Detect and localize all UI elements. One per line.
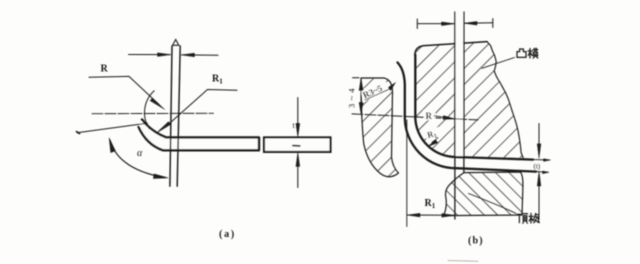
punch block top edge fig b	[415, 42, 487, 55]
punch block right wavy edge fig b	[487, 42, 523, 158]
white strip of punch stem fig b	[456, 12, 464, 156]
scan smudge under (b)	[448, 260, 478, 263]
svg-text:t: t	[293, 121, 296, 130]
top dimension right arrow fig a	[182, 54, 218, 56]
ejector pad hatched fig b	[444, 172, 523, 216]
die corner label R3~5 fig b	[360, 80, 389, 101]
thickness dim lower arrow fig a	[297, 167, 299, 188]
label tu-mo (punch) fig b	[517, 48, 538, 58]
flange end tick	[77, 132, 80, 134]
bottom dimension R1 fig b	[406, 120, 408, 227]
delta mark above punch	[173, 40, 179, 46]
sheet inner surface vertical + bend fig b	[415, 55, 533, 160]
top dimension fig b	[417, 19, 454, 29]
small mark inside detached section	[293, 145, 300, 147]
left small dimension 3~4 fig b	[360, 80, 362, 113]
svg-text:R: R	[426, 111, 433, 121]
svg-text:α: α	[137, 148, 143, 159]
punch block hatched region fig b	[416, 42, 524, 158]
alpha arc lower arrowhead	[153, 174, 168, 179]
svg-text:R1: R1	[425, 198, 436, 210]
sheet outer surface vertical + bend fig b	[398, 63, 537, 172]
punch bar fig a	[170, 46, 180, 186]
centerline fig a	[92, 112, 214, 114]
sheet band (bent workpiece) fig a	[139, 120, 259, 151]
flange springback line fig a	[77, 123, 148, 133]
label R1 small fig b	[425, 127, 441, 142]
svg-text:R: R	[101, 64, 109, 75]
leader of R1 fig a	[166, 90, 237, 127]
die top edge extension fig b	[353, 77, 360, 79]
svg-text:R1: R1	[212, 74, 223, 86]
punch stem lines fig b	[455, 12, 464, 219]
leader of R1 small fig b	[432, 138, 438, 143]
die piece (left) hatched fig b	[361, 78, 399, 177]
label R fig b	[424, 110, 435, 120]
leader to ding-ban fig b	[469, 194, 517, 214]
leader of R fig b	[434, 116, 450, 118]
centerline fig b	[352, 114, 478, 120]
bend zone arc r30 fig a	[145, 91, 155, 129]
leader to tu-mo fig b	[482, 58, 515, 69]
alpha arc upper arrowhead	[109, 138, 115, 153]
thickness dim upper arrow fig a	[297, 98, 299, 125]
right thickness dimension fig b	[538, 124, 540, 145]
svg-text:(b): (b)	[468, 236, 484, 247]
alpha angle arc fig a	[110, 141, 164, 178]
top dimension left arrow fig a	[129, 54, 171, 56]
sheet edge extensions with end arrows fig b	[533, 160, 550, 173]
svg-text:3~4: 3~4	[347, 85, 357, 108]
label ding-ban (ejector plate) fig b	[517, 213, 539, 223]
svg-text:(a): (a)	[219, 229, 236, 240]
leader of R fig a	[89, 76, 159, 104]
detached sheet section fig a	[264, 137, 331, 152]
svg-text:(t): (t)	[534, 163, 541, 171]
